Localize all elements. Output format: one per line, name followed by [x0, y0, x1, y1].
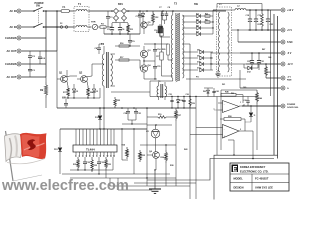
svg-text:C44: C44 — [268, 56, 271, 59]
transistor Q3 — [140, 46, 151, 58]
snubber R14 C17 — [156, 11, 173, 76]
wire AC line1 to switch — [21, 10, 33, 12]
svg-text:FC-4502ST: FC-4502ST — [255, 177, 269, 181]
transformer T2 — [150, 2, 184, 89]
resistor R8 — [86, 81, 93, 98]
resistor R7 — [63, 81, 70, 98]
wire acout2 row — [21, 76, 46, 78]
svg-text:TL494: TL494 — [86, 147, 95, 151]
wire long bus C — [277, 16, 279, 159]
wire opamp frame — [190, 90, 257, 199]
capacitor C16 electrolytic — [154, 24, 170, 37]
svg-text:UHW SYS LEE: UHW SYS LEE — [255, 185, 273, 189]
wire Q bases — [57, 76, 92, 79]
ground GND1 — [149, 169, 161, 193]
wire line2 to filter — [44, 26, 75, 28]
wire T2 mid tap — [168, 59, 173, 61]
capacitor C7a — [159, 7, 164, 20]
wire h163 — [166, 145, 176, 186]
bridge rectifier BR1 — [111, 3, 130, 22]
svg-text:C18: C18 — [246, 15, 249, 17]
wire Q collectors — [67, 70, 96, 77]
wire caps join — [122, 120, 147, 125]
resistor R19 — [147, 114, 176, 118]
zener ZD1 — [54, 129, 62, 174]
svg-text:MODEL: MODEL — [234, 177, 244, 181]
transformer T5 — [157, 81, 167, 100]
wire filter out bottom — [89, 26, 92, 28]
wire emitter bus — [62, 97, 100, 98]
terminal J5 CHASSIS — [5, 62, 21, 66]
svg-text:AC IN: AC IN — [9, 9, 16, 13]
resistor R17 — [119, 57, 129, 61]
diode D14 — [177, 97, 183, 109]
svg-text:KOREA EFFICIENCY: KOREA EFFICIENCY — [240, 165, 266, 169]
diode D9 negative rail rectifier — [182, 56, 213, 60]
wire bot bus — [134, 182, 196, 184]
svg-text:R38: R38 — [170, 165, 173, 167]
svg-text:C20: C20 — [247, 61, 250, 63]
svg-text:7: 7 — [96, 155, 97, 157]
capacitor C32 — [83, 157, 90, 170]
svg-text:S NC: S NC — [287, 41, 293, 44]
capacitor C5 — [107, 23, 114, 34]
capacitor C1 — [106, 11, 113, 27]
svg-text:8: 8 — [100, 155, 101, 157]
svg-text:5: 5 — [89, 155, 90, 157]
wire h88 — [111, 86, 150, 92]
svg-text:DESIGN: DESIGN — [234, 185, 244, 189]
fuse holder F2 — [60, 23, 68, 28]
wire secondary vertical bus — [210, 10, 213, 70]
resistor R10 — [258, 10, 264, 30]
resistor R16 — [119, 43, 129, 47]
wire -5V rail — [240, 52, 281, 54]
wire AC line2 to switch — [21, 26, 33, 28]
wire bus x46 — [45, 11, 47, 77]
resistor R22 — [114, 97, 121, 108]
logo flag red part — [7, 133, 47, 164]
terminal S NC — [281, 40, 293, 44]
resistor R39 — [189, 97, 195, 109]
diode D20 — [203, 88, 213, 97]
wire chassis row — [21, 37, 46, 39]
svg-text:10: 10 — [107, 155, 109, 157]
resistor R45 — [217, 90, 243, 103]
capacitor C21 — [257, 53, 264, 70]
resistor R32 — [91, 157, 97, 172]
terminal J3 CHASSIS — [5, 36, 21, 40]
wire opamp inputs — [190, 103, 218, 135]
transformer T1 line filter — [74, 2, 89, 32]
svg-text:CHASSIS: CHASSIS — [5, 62, 17, 66]
wire IC top bus — [60, 128, 147, 129]
svg-text:R43: R43 — [184, 148, 187, 151]
svg-text:1: 1 — [240, 102, 241, 104]
diode D4 — [138, 11, 145, 20]
svg-text:FAN: FAN — [287, 79, 292, 82]
svg-text:AC OUT: AC OUT — [7, 75, 17, 79]
svg-text:R35: R35 — [142, 155, 145, 157]
wire bulk bottom bus — [104, 27, 140, 35]
svg-text:D21: D21 — [222, 84, 225, 86]
svg-text:R19: R19 — [158, 114, 161, 116]
wire center tap — [182, 44, 190, 108]
svg-text:GOOD SIG.: GOOD SIG. — [287, 107, 299, 109]
inductor L1 common choke — [213, 4, 232, 76]
shunt regulator U3 TL431 — [146, 125, 160, 152]
wire mid bus y108 — [57, 107, 196, 109]
terminal FAN — [281, 76, 292, 82]
transistor Q2 — [79, 72, 87, 83]
svg-text:6: 6 — [93, 155, 94, 157]
svg-text:12: 12 — [113, 155, 115, 157]
svg-text:C42: C42 — [216, 90, 219, 93]
svg-text:ELECTRONIC CO. LTD.: ELECTRONIC CO. LTD. — [240, 169, 269, 173]
switch S1a POWER SW — [33, 2, 44, 12]
svg-text:C40: C40 — [243, 86, 246, 89]
switch S1b — [33, 23, 44, 28]
terminal -5V — [281, 51, 292, 55]
wire h79 — [144, 78, 157, 79]
wire filter to bridge top — [89, 10, 112, 12]
svg-text:-5 V: -5 V — [287, 77, 292, 79]
svg-text:AC OUT: AC OUT — [7, 49, 17, 53]
svg-text:-12 V: -12 V — [287, 63, 293, 66]
wire IC top pins — [76, 129, 114, 145]
wire chassis2 row — [21, 63, 46, 65]
svg-text:R20: R20 — [162, 49, 165, 51]
svg-text:R17: R17 — [120, 57, 123, 59]
svg-text:C33: C33 — [101, 162, 104, 164]
resistor R50 — [220, 110, 245, 131]
resistor R31 — [73, 157, 79, 170]
switch gang link — [38, 9, 40, 25]
svg-text:C17: C17 — [156, 56, 159, 58]
svg-text:C21: C21 — [261, 61, 264, 63]
svg-text:R46: R46 — [259, 97, 262, 100]
capacitor C42 — [212, 88, 218, 97]
wire to fuse — [44, 26, 61, 28]
capacitor C4 — [38, 51, 46, 64]
wire main HV bus — [128, 10, 226, 12]
svg-text:R14: R14 — [156, 31, 159, 34]
svg-text:+5 V: +5 V — [287, 29, 292, 32]
capacitor C35 — [169, 94, 174, 108]
wire to filter top — [44, 10, 75, 12]
ground GND2 — [211, 70, 221, 77]
svg-text:D14: D14 — [180, 99, 183, 102]
terminal -12V — [281, 62, 293, 66]
capacitor C30 — [124, 108, 131, 120]
resistor R20 — [162, 44, 169, 60]
transistor Q4 — [140, 60, 151, 79]
resistor R35 — [139, 150, 145, 162]
capacitor C15 — [153, 61, 160, 79]
capacitor C14 — [153, 44, 161, 61]
wire pair top — [214, 155, 278, 199]
diode D5 secondary rectifier — [182, 19, 213, 23]
svg-text:R32: R32 — [94, 165, 97, 167]
resistor R1 — [100, 23, 112, 28]
inductor L2 — [235, 5, 246, 10]
svg-text:G: G — [287, 88, 289, 90]
wire long bus A — [270, 10, 272, 96]
wire drive link2 — [100, 88, 104, 98]
resistor R11 — [265, 64, 271, 78]
capacitor C8 — [95, 44, 105, 54]
svg-text:C23: C23 — [270, 24, 273, 26]
wire pair bottom — [147, 159, 274, 181]
svg-text:AC IN: AC IN — [9, 25, 16, 29]
logo flag white part — [5, 134, 23, 162]
op-amp U2A — [218, 101, 241, 114]
svg-text:R39: R39 — [192, 103, 195, 105]
terminal +12V — [281, 8, 294, 12]
svg-text:3: 3 — [82, 155, 83, 157]
terminal J2 AC IN — [9, 25, 21, 29]
svg-text:R16: R16 — [120, 43, 123, 45]
svg-text:9: 9 — [103, 155, 104, 157]
wire drop x122 — [122, 129, 128, 160]
wire bus x57 — [56, 11, 58, 51]
capacitor C9 — [128, 34, 135, 46]
wire top loop — [217, 4, 262, 11]
wire mid bus y96 — [150, 88, 258, 97]
capacitor C7 — [136, 11, 143, 34]
resistor R46 — [256, 90, 262, 150]
transistor Q6 — [147, 151, 159, 170]
title block — [230, 163, 289, 191]
wire U2A out — [239, 105, 281, 106]
svg-text:C36: C36 — [186, 94, 189, 96]
capacitor C18 — [246, 10, 253, 30]
label C40 — [222, 84, 246, 95]
capacitor C3 — [28, 64, 36, 77]
svg-text:R33: R33 — [108, 164, 111, 166]
capacitor C33 — [97, 157, 104, 170]
wire drop x104 — [103, 88, 105, 129]
svg-text:BR1: BR1 — [118, 3, 123, 6]
resistor R37 — [170, 108, 187, 167]
diode D7 secondary rectifier — [182, 31, 213, 35]
wire acout row — [21, 50, 57, 52]
wire +5V rail — [248, 29, 281, 31]
svg-text:R36: R36 — [161, 157, 164, 159]
wire h46 — [115, 45, 140, 46]
terminal J1 AC IN — [9, 9, 21, 13]
capacitor C31 — [134, 108, 142, 120]
svg-text:C41: C41 — [244, 99, 247, 102]
logo flag pole — [6, 131, 43, 181]
wire h60 — [115, 59, 140, 61]
capacitor C6 — [118, 23, 125, 34]
wire q3q4 join — [143, 58, 155, 65]
svg-text:2: 2 — [240, 129, 241, 131]
wire under-IC bus3 — [70, 170, 176, 190]
diode D1 secondary rectifier — [182, 12, 213, 17]
wire h145 — [140, 144, 176, 150]
svg-text:R47: R47 — [262, 48, 265, 51]
op-amp U2B — [218, 125, 241, 139]
capacitor C2 — [28, 51, 36, 64]
wire PG bus y79 — [186, 77, 246, 80]
svg-text:C32: C32 — [87, 162, 90, 164]
terminal J6 AC OUT — [7, 75, 21, 79]
diode D6 secondary rectifier — [182, 25, 213, 29]
svg-text:C15: C15 — [157, 66, 160, 68]
wire long bus B — [268, 14, 274, 155]
svg-text:CHASSIS: CHASSIS — [5, 36, 17, 40]
capacitor C23 — [266, 10, 273, 30]
op-amp U1 TL494 PWM IC — [73, 145, 117, 157]
wire drive link1 — [92, 64, 104, 76]
wire S-NC rail — [237, 29, 280, 42]
svg-text:C35: C35 — [169, 94, 172, 96]
resistor R3 — [126, 23, 133, 34]
capacitor C20 — [247, 53, 254, 70]
capacitor C36 — [182, 94, 188, 108]
wire h44 — [144, 43, 168, 44]
capacitor C19 — [254, 10, 261, 30]
wire y125 — [147, 124, 172, 125]
svg-text:-5 V: -5 V — [287, 52, 292, 55]
wire drop x147 — [146, 108, 147, 186]
wire PG — [244, 104, 281, 106]
resistor R2 — [152, 11, 159, 25]
svg-text:1: 1 — [75, 155, 76, 157]
wire +12V rail — [246, 9, 281, 11]
wire drop x234 — [228, 140, 235, 156]
resistor R9 — [40, 82, 48, 98]
wire under-IC bus2 — [62, 170, 170, 175]
terminal GND — [281, 86, 289, 90]
wire under-IC bus1 — [70, 157, 113, 171]
fuse F1 — [61, 6, 70, 12]
diode D10 negative rail rectifier — [182, 62, 213, 66]
diode D2 — [72, 84, 79, 98]
label R47 — [262, 48, 271, 59]
wire rails through choke — [211, 10, 248, 64]
wire bus x46 low — [46, 51, 57, 108]
svg-text:R37: R37 — [178, 115, 181, 117]
svg-text:+12 V: +12 V — [287, 9, 294, 12]
terminal POWER GOOD — [281, 104, 299, 109]
svg-text:THR: THR — [91, 22, 96, 24]
capacitor C22 — [57, 97, 68, 108]
diode D12 — [244, 64, 258, 74]
terminal J4 AC OUT — [7, 49, 21, 53]
wire -12V rail — [246, 63, 281, 65]
wire GND rail — [240, 70, 281, 88]
wire U2B out — [239, 130, 253, 132]
svg-text:R10: R10 — [258, 24, 261, 26]
diode D13 — [95, 108, 102, 129]
zener ZD2 — [245, 106, 255, 122]
resistor R33 — [105, 157, 111, 170]
svg-text:11: 11 — [110, 155, 112, 157]
thermistor THR — [91, 22, 100, 30]
resistor R36 — [161, 145, 168, 163]
wire SW label — [184, 3, 199, 11]
terminal +5V — [281, 28, 292, 32]
transistor Q1 — [59, 72, 67, 83]
svg-text:D20: D20 — [203, 91, 206, 93]
wire c7 join — [163, 11, 167, 24]
watermark www.elecfree.com — [1, 178, 129, 194]
capacitor C41 — [244, 90, 250, 106]
wire drop x134 — [133, 129, 135, 174]
diode D8 negative rail rectifier — [182, 50, 213, 54]
svg-text:11: 11 — [254, 115, 256, 117]
resistor R34 — [122, 129, 129, 159]
svg-text:POWER: POWER — [287, 104, 296, 106]
svg-text:R31: R31 — [73, 164, 76, 166]
diode D3 — [92, 84, 99, 98]
wire FAN rail — [266, 77, 281, 79]
wire drop x253 — [252, 131, 254, 159]
svg-text:www.elecfree.com: www.elecfree.com — [1, 178, 129, 194]
capacitor C7b — [165, 7, 171, 20]
diode D11 negative rail rectifier — [182, 68, 213, 72]
transformer T4 — [101, 43, 115, 88]
wire bot bus2 — [110, 178, 190, 186]
transistor Q5 — [141, 20, 153, 34]
svg-text:2: 2 — [79, 155, 80, 157]
